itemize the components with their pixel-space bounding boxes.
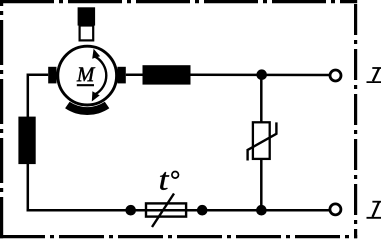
thermistor nonlinearity mark	[248, 122, 277, 160]
junction node B (bottom rail / thermistor branch)	[256, 205, 267, 216]
wire: resistor R2 to terminal I	[190, 73, 330, 76]
enclosure dash-dot border (right)	[354, 0, 357, 238]
rotation arrow head (bottom)	[92, 91, 100, 101]
rotation arrow head (top)	[92, 49, 100, 59]
motor stator segment (bottom arc)	[65, 102, 109, 115]
third-brush terminal block (filled)	[78, 7, 96, 25]
motor label underline	[77, 84, 94, 86]
terminal I (top right, open circle)	[330, 70, 341, 81]
motor third brush (top, open box)	[80, 26, 94, 41]
wire: bottom rail	[27, 209, 331, 212]
resistor R1 (left series resistor)	[18, 117, 35, 165]
thermal breaker slash	[152, 194, 174, 228]
enclosure dash-dot border (top)	[0, 0, 357, 3]
rotation arrow (reversible) arc	[95, 57, 106, 94]
enclosure dash-dot border (bottom)	[0, 235, 357, 238]
wire: right brush to resistor R2	[126, 73, 144, 76]
junction dot (right of breaker)	[197, 205, 208, 216]
wire: thermistor down to node B	[260, 159, 263, 210]
wire: left brush to left rail corner	[28, 75, 48, 118]
thermal breaker F1 body	[146, 203, 186, 216]
resistor R2 (top series resistor)	[143, 65, 191, 84]
terminal label II (bottom right edge)	[367, 202, 381, 218]
motor label M	[77, 67, 96, 81]
terminal II (bottom right, open circle)	[330, 204, 341, 215]
motor right brush	[117, 67, 125, 84]
wire: left rail resistor to bottom rail corner	[28, 163, 40, 210]
wire: node A down to thermistor	[260, 75, 263, 122]
thermistor R3 body	[253, 122, 270, 159]
label t of t°	[160, 172, 169, 190]
motor M1 body	[58, 46, 117, 105]
terminal label I (top right edge)	[367, 68, 381, 82]
enclosure dash-dot border (left)	[0, 0, 3, 238]
junction dot (left of breaker)	[125, 205, 136, 216]
degree mark of t°	[172, 172, 179, 179]
motor left brush	[48, 67, 56, 84]
junction node A (top rail / thermistor branch)	[256, 69, 267, 80]
